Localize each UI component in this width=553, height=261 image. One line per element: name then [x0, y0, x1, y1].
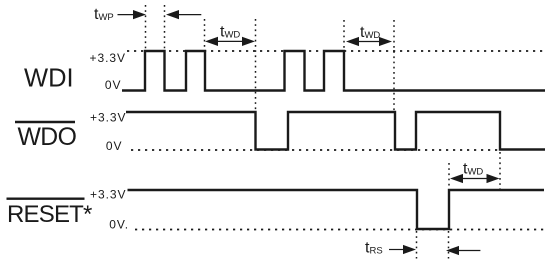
- wire tWD1 double arrow: [216, 40, 244, 42]
- svg-text:+3.3V: +3.3V: [90, 188, 126, 202]
- node tRS left dotted marker (RESET falling edge): [416, 231, 418, 259]
- svg-text:RESET*: RESET*: [7, 201, 92, 228]
- wire WDO waveform: [126, 112, 545, 150]
- wire tRS opposing arrow: [458, 250, 480, 252]
- label signal RESET* (overlined): [7, 197, 85, 199]
- node tWD3 left dotted marker (RESET rising edge): [448, 163, 450, 189]
- wire tWD3 double arrow: [461, 178, 488, 180]
- node WDO 0V dotted reference line: [131, 149, 500, 151]
- node WDI +3.3V dotted reference line: [127, 50, 545, 52]
- node tRS right dotted marker (RESET rising edge): [448, 231, 450, 259]
- node tWD2 right dotted marker (WDO falling edge 2): [393, 20, 395, 111]
- node tWP left dotted marker (WDI pulse1 rising edge): [145, 5, 147, 50]
- wire tWD2 double arrow: [357, 41, 381, 43]
- wire tWP arrow leader: [118, 14, 136, 16]
- node tWD1 right dotted marker (WDO falling edge 1): [255, 19, 257, 111]
- wire RESET waveform: [128, 190, 545, 229]
- node tWD2 left dotted marker (WDI pulse4 falling edge): [343, 20, 345, 50]
- svg-text:+3.3V: +3.3V: [90, 51, 126, 65]
- wire tRS arrow leader: [389, 249, 405, 251]
- svg-text:+3.3V: +3.3V: [90, 110, 126, 124]
- node RESET 0V dotted reference line: [135, 229, 545, 231]
- svg-text:0V: 0V: [106, 139, 123, 153]
- node tWD1 left dotted marker (WDI pulse2 falling edge): [204, 19, 206, 50]
- label signal WDO (overlined): [15, 121, 75, 123]
- svg-text:WDO: WDO: [18, 124, 77, 151]
- wire WDI waveform: [122, 51, 545, 91]
- node tWP right dotted marker (WDI pulse1 falling edge): [164, 5, 166, 50]
- svg-text:WDI: WDI: [24, 65, 74, 93]
- wire tWP opposing arrow: [178, 14, 201, 16]
- svg-text:0V: 0V: [105, 78, 122, 92]
- node tWD3 right dotted marker (WDO falling edge 3): [499, 152, 501, 189]
- svg-text:0V.: 0V.: [109, 218, 129, 232]
